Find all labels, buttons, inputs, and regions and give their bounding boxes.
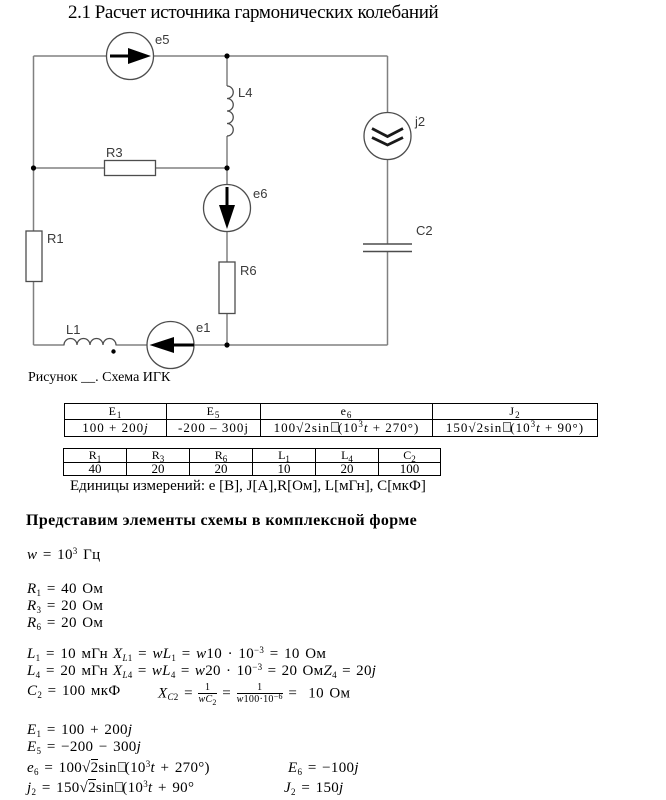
capacitor C2 (363, 243, 412, 245)
eq R3 (27, 598, 103, 615)
source e1 (147, 322, 194, 369)
eq L1 (27, 646, 108, 663)
svg-text:e5: e5 (155, 32, 169, 47)
svg-text:L1: L1 (66, 322, 80, 337)
wire right upper (387, 56, 389, 244)
eq L4 (27, 663, 108, 680)
table 1 (64, 403, 598, 437)
source e5 (107, 33, 154, 80)
eq w (27, 547, 100, 564)
node dot left-middle (31, 165, 36, 170)
svg-text:e6: e6 (253, 186, 267, 201)
resistor R1 (26, 231, 42, 282)
wire middle horizontal (34, 167, 228, 169)
wire left (33, 56, 35, 345)
node dot center (224, 165, 229, 170)
eq R6 (27, 615, 103, 632)
source j2 (364, 113, 411, 160)
title (68, 2, 438, 24)
inductor L4 (227, 86, 233, 136)
wire right lower (387, 252, 389, 346)
svg-text:L4: L4 (238, 85, 252, 100)
wire bottom left (34, 344, 65, 346)
svg-text:C2: C2 (416, 223, 433, 238)
wire bottom right (116, 344, 388, 346)
inductor L1 (64, 339, 116, 346)
eq C2 (27, 683, 120, 700)
units (70, 478, 426, 495)
heading (26, 512, 417, 530)
source e6 (204, 185, 251, 232)
resistor R3 (105, 161, 156, 176)
resistor R6 (219, 262, 235, 314)
eq e6 (27, 760, 210, 777)
wire middle vertical lower (226, 136, 228, 345)
svg-text:R6: R6 (240, 263, 257, 278)
node dot top-middle (224, 53, 229, 58)
svg-text:e1: e1 (196, 320, 210, 335)
svg-text:R1: R1 (47, 231, 64, 246)
table 2 (63, 448, 441, 476)
circuit schematic svg (0, 0, 460, 400)
svg-text:j2: j2 (414, 114, 425, 129)
eq E6 (288, 760, 359, 777)
eq E1 (27, 722, 132, 739)
caption (28, 370, 170, 386)
eq j2 (27, 780, 194, 797)
eq J2 (284, 780, 344, 797)
svg-text:R3: R3 (106, 145, 123, 160)
wire middle vertical upper (226, 56, 228, 86)
wire top (34, 55, 388, 57)
eq R1 (27, 581, 103, 598)
eq E5 (27, 739, 141, 756)
node dot bottom-middle (224, 342, 229, 347)
